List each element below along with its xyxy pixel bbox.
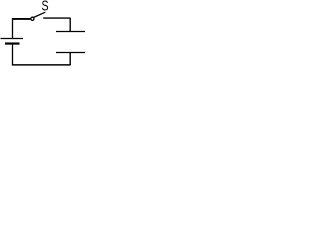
svg-text:S: S: [42, 0, 49, 14]
